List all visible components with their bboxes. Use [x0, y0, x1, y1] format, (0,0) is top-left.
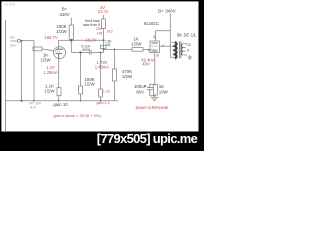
V1 cathode: [56, 53, 63, 58]
wire R1 to V1 grid: [42, 49, 54, 51]
svg-text:1K: 1K: [159, 84, 164, 89]
potentiometer VR1 track wire: [33, 41, 35, 101]
wire R6 to V2 grid: [143, 48, 150, 50]
svg-text:1/2W: 1/2W: [84, 82, 95, 87]
grid wire to R6: [104, 48, 133, 50]
wire node E down to R4: [114, 49, 116, 69]
V1 plate bar: [56, 48, 63, 50]
svg-text:input: input: [10, 39, 17, 43]
svg-text:5K SE UL: 5K SE UL: [177, 33, 197, 38]
transformer T1 primary: [175, 42, 177, 58]
divider chain upper wire: [80, 53, 82, 87]
svg-text:340V: 340V: [59, 12, 69, 17]
svg-text:[779x505] upic.me: [779x505] upic.me: [97, 131, 198, 146]
resistor R2 100K plate load: [69, 25, 73, 39]
svg-text:B+ 340V: B+ 340V: [158, 8, 177, 13]
small network box node C: [101, 45, 107, 48]
svg-text:5: 5: [148, 48, 150, 52]
svg-text:A.M: A.M: [30, 105, 36, 109]
resistor R3 grid leak lower: [99, 89, 103, 97]
secondary tap dash 2: [183, 50, 186, 52]
resistor R5 feedback: [102, 19, 106, 29]
wire V2 cathode down: [154, 53, 156, 85]
svg-text:1/2W: 1/2W: [131, 42, 142, 47]
frame left edge: [0, 0, 1, 151]
wire R4 to ground rail: [114, 81, 116, 101]
node A junction dot: [21, 40, 23, 42]
wire jack ground down: [21, 41, 23, 101]
svg-text:1/2W: 1/2W: [56, 29, 67, 34]
node G junction dot: [103, 39, 105, 41]
svg-text:gain n-weak = 32*(8 + 5%): gain n-weak = 32*(8 + 5%): [53, 113, 101, 118]
frame top edge: [0, 0, 204, 1]
V2 grid dashes: [151, 48, 158, 50]
svg-text:3: 3: [153, 35, 155, 39]
wire secondary top lead: [183, 43, 187, 45]
wire V1 cathode down: [58, 59, 60, 88]
svg-text:1/2W: 1/2W: [122, 74, 133, 79]
wire B+ down to OPT: [170, 14, 174, 58]
wire plate to node B: [59, 39, 72, 41]
wire node B down to coupling cap: [70, 40, 72, 52]
resistor R9 divider body: [79, 86, 83, 94]
rail junction dot 4: [100, 100, 102, 102]
ground rail wire: [6, 100, 119, 102]
capacitor C3 100uF: [147, 84, 153, 96]
wire to C1: [71, 52, 89, 54]
V2 screen dashes: [152, 45, 159, 47]
svg-text:16: 16: [187, 43, 191, 47]
input jack J1: [18, 39, 21, 42]
svg-text:gain=1.4: gain=1.4: [96, 101, 109, 105]
ground secondary: [188, 55, 192, 60]
svg-text:22K: 22K: [96, 27, 103, 31]
svg-text:22.7x: 22.7x: [98, 9, 109, 14]
watermark bottom bar: [0, 132, 204, 152]
svg-text:1.45mA: 1.45mA: [95, 65, 110, 70]
rail junction dot 2: [58, 100, 60, 102]
capacitor C1 0.1uF coupling: [89, 50, 91, 55]
wire R7 to rail: [58, 96, 60, 101]
wire OPT primary top lead: [172, 41, 175, 43]
svg-text:4: 4: [162, 44, 164, 48]
V1 grid dashes: [55, 50, 60, 52]
svg-text:1.28mA: 1.28mA: [43, 70, 58, 75]
svg-text:60V: 60V: [136, 89, 144, 94]
pentode V2 6L6GC envelope: [150, 41, 160, 53]
wire V1 plate up: [58, 40, 60, 49]
svg-text:jack: jack: [9, 43, 16, 47]
svg-text:400V: 400V: [82, 48, 91, 52]
svg-text:B+: B+: [62, 7, 68, 12]
frame right stripe: [199, 0, 205, 151]
wire cathode network join: [150, 96, 156, 98]
svg-text:1/2W: 1/2W: [40, 58, 51, 63]
svg-text:1.2K: 1.2K: [103, 90, 111, 94]
wire node C down to R3: [100, 53, 102, 90]
secondary tap dash 1: [183, 47, 186, 49]
wire B+ drop: [70, 18, 72, 26]
svg-text:8: 8: [156, 53, 158, 57]
svg-text:gain 10: gain 10: [53, 102, 68, 107]
wire NFB open end: [103, 15, 105, 19]
transformer T1 core: [180, 42, 181, 59]
svg-text:8: 8: [187, 48, 189, 52]
rail junction dot 3: [80, 100, 82, 102]
svg-text:1W: 1W: [97, 32, 103, 36]
resistor R6 1K grid stopper 6L6: [132, 48, 143, 52]
schematic left frame line: [5, 20, 7, 131]
resistor R1 1K grid stopper: [33, 47, 42, 51]
svg-text:2K2: 2K2: [107, 30, 113, 34]
svg-text:166.7V: 166.7V: [44, 35, 57, 40]
svg-text:power 6.8W-peak: power 6.8W-peak: [136, 105, 170, 110]
resistor R7 1.1K cathode: [57, 88, 61, 96]
wire node C up to grid line: [103, 49, 105, 52]
svg-text:16.2V: 16.2V: [86, 38, 97, 43]
wire R3 to ground rail: [100, 97, 102, 101]
wire R2 to node B: [70, 39, 72, 40]
transformer T1 secondary: [181, 44, 182, 55]
wire NFB node down: [103, 40, 105, 49]
wire NFB chain lower: [103, 29, 105, 41]
rail junction dot pot: [33, 100, 35, 102]
resistor R4 470K grid leak: [112, 69, 116, 81]
ground main: [151, 97, 159, 100]
V2 plate bar: [152, 42, 159, 44]
rail junction dot 1: [21, 100, 23, 102]
svg-text:10W: 10W: [159, 89, 169, 94]
wire cathode split: [150, 83, 156, 85]
node E junction dot: [114, 49, 116, 51]
node D junction dot: [103, 49, 105, 51]
wire V2 plate up and over: [156, 31, 171, 41]
wire node B to NFB node: [71, 39, 103, 41]
wire V2 screen to UL tap: [160, 45, 175, 47]
node B junction dot: [70, 39, 73, 42]
V2 cathode: [152, 50, 158, 52]
node F junction dot: [79, 51, 81, 53]
svg-text:1/2W: 1/2W: [44, 89, 55, 94]
node C junction dot: [100, 52, 102, 54]
svg-text:40V: 40V: [142, 62, 150, 67]
svg-text:+: +: [145, 85, 147, 89]
triode V1 envelope: [54, 47, 66, 59]
svg-text:1W: 1W: [106, 43, 111, 47]
wire jack to node A: [21, 40, 35, 42]
svg-text:SE 6L6: SE 6L6: [4, 3, 15, 7]
wire secondary bottom lead: [183, 54, 187, 56]
svg-text:6L6GC: 6L6GC: [144, 21, 160, 27]
resistor R8 1K 10W: [153, 84, 157, 95]
wire C1 to node C: [91, 52, 104, 54]
wire R9 to rail: [80, 94, 82, 101]
